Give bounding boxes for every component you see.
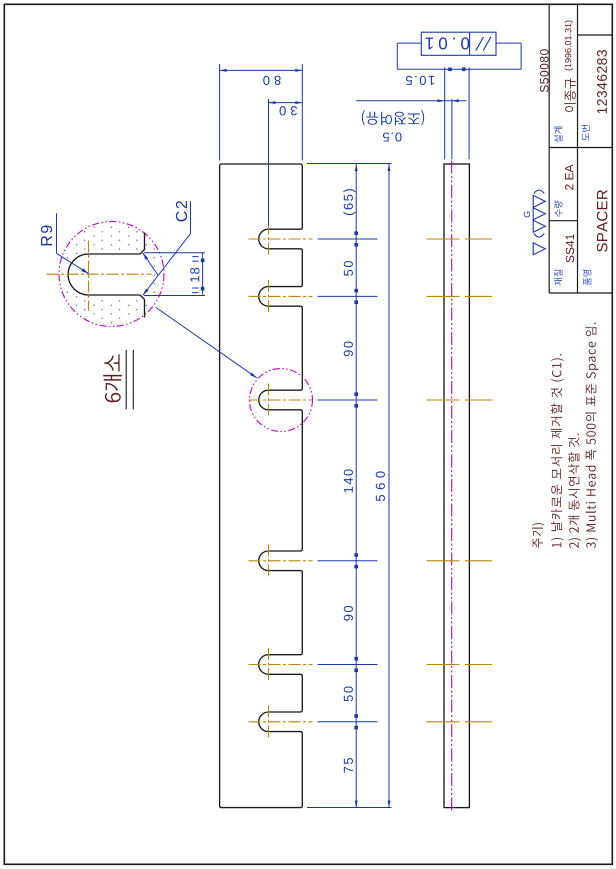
eq mark 1a bbox=[192, 256, 198, 258]
note 1 bbox=[551, 354, 564, 547]
detail indicator circle on part (slot 3) bbox=[250, 369, 313, 432]
ext line offset bbox=[451, 99, 453, 159]
slot 4 centerline horizontal bbox=[249, 560, 313, 562]
label 수량 bbox=[554, 201, 562, 217]
C2 leader shoulder bbox=[190, 201, 192, 233]
side view slot mark 2 (orange) bbox=[427, 295, 493, 297]
value (1996.01.31) bbox=[565, 21, 573, 71]
detail leader bbox=[156, 307, 257, 378]
ext line 18 bottom bbox=[144, 295, 205, 297]
title v2 bbox=[577, 4, 579, 293]
slot 4 extension line bbox=[318, 560, 378, 562]
value 이종규 bbox=[564, 78, 576, 112]
side view slot mark 6 (orange) bbox=[427, 721, 493, 723]
FCF divider bbox=[469, 32, 471, 55]
side view slot mark 3 (orange) bbox=[427, 399, 493, 401]
segment dim ticks at y=296.4 bbox=[354, 289, 358, 293]
part name SPACER bbox=[597, 190, 608, 252]
ext line top bbox=[307, 163, 392, 165]
slot 2 centerline horizontal bbox=[249, 295, 313, 297]
surface G bbox=[524, 211, 530, 217]
title h3 bbox=[549, 220, 577, 222]
dim line 0.5 bbox=[356, 100, 466, 102]
C2 leader 2 bbox=[143, 253, 159, 276]
ext line bottom bbox=[307, 807, 392, 809]
dim text 30 bbox=[280, 106, 297, 115]
slash 2 bbox=[483, 37, 491, 51]
6개소 underline 2 bbox=[132, 350, 134, 410]
C2 leader 1 bbox=[143, 234, 191, 296]
label 도번 bbox=[582, 125, 590, 141]
dim text 80 bbox=[263, 76, 280, 85]
note header 주기) bbox=[532, 523, 544, 548]
slot 6 centerline horizontal bbox=[249, 721, 313, 723]
paren ( bbox=[534, 234, 545, 238]
FCF tolerance 0.01 bbox=[426, 37, 470, 49]
ext line side right bbox=[468, 67, 470, 159]
slot 2 centerline vertical bbox=[268, 280, 270, 313]
surface finish triangles bbox=[533, 243, 545, 255]
segment dim ticks at y=239 bbox=[354, 231, 358, 235]
slot 6 extension line bbox=[318, 721, 378, 723]
dim text 18 bbox=[190, 268, 199, 282]
segment dim text 50 bbox=[344, 686, 353, 701]
side view slot mark 4 (orange) bbox=[427, 560, 493, 562]
dim text (조정여유) bbox=[362, 110, 424, 125]
value SS41 bbox=[566, 234, 574, 262]
ext line 80 left bbox=[219, 64, 221, 161]
label 품명 bbox=[583, 270, 591, 285]
note 2 bbox=[568, 433, 581, 548]
dim text 560 bbox=[376, 471, 385, 501]
part outline (front view, 6 slots) bbox=[220, 164, 303, 808]
eq mark 2a bbox=[192, 287, 198, 289]
dim line 80 bbox=[220, 69, 303, 71]
dim text 0.5 bbox=[383, 132, 402, 141]
segment dim ticks at y=400 bbox=[354, 392, 358, 396]
R9 leader bbox=[57, 253, 89, 273]
detail view circle bbox=[59, 222, 164, 327]
segment dim ticks at y=560.8 bbox=[354, 553, 358, 557]
6개소 underline 1 bbox=[125, 350, 127, 410]
label R9 bbox=[41, 226, 52, 246]
segment dim line bbox=[355, 164, 357, 808]
side view rectangle bbox=[444, 164, 469, 808]
value 12346283 bbox=[597, 50, 607, 113]
shelf top right bbox=[496, 42, 521, 44]
ext line 30 left bbox=[268, 99, 270, 225]
ext line 80/30 right bbox=[301, 64, 303, 161]
doc number S50080 bbox=[540, 49, 548, 92]
side view centerline (magenta) bbox=[451, 161, 453, 812]
slot 5 centerline vertical bbox=[268, 648, 270, 681]
segment dim text 90 bbox=[344, 606, 353, 621]
slot 5 extension line bbox=[318, 664, 378, 666]
segment dim text 50 bbox=[344, 261, 353, 276]
title h2 bbox=[549, 147, 612, 149]
eq mark 1b bbox=[192, 260, 198, 262]
slash 1 bbox=[476, 37, 484, 51]
segment dim text 90 bbox=[344, 341, 353, 356]
slot 1 centerline vertical bbox=[268, 223, 270, 256]
dim 10.5 square ticks bbox=[448, 68, 452, 72]
slot 1 extension line bbox=[318, 238, 378, 240]
detail stipple dots bbox=[93, 227, 95, 229]
dim line 30 bbox=[269, 102, 303, 104]
label 6개소 bbox=[103, 354, 122, 402]
slot 5 centerline horizontal bbox=[249, 664, 313, 666]
shelf right bbox=[520, 43, 522, 69]
R9 leader shoulder bbox=[56, 213, 58, 253]
label 재질 bbox=[554, 270, 562, 286]
eq mark 2b bbox=[192, 292, 198, 294]
ext line side left bbox=[444, 67, 446, 159]
feature control frame box bbox=[421, 32, 496, 55]
slot 2 extension line bbox=[318, 295, 378, 297]
shelf left bbox=[396, 43, 398, 69]
side view slot mark 1 (orange) bbox=[427, 238, 493, 240]
label 설계 bbox=[554, 127, 562, 143]
slot 3 centerline vertical bbox=[268, 384, 270, 417]
title h1 bbox=[578, 34, 613, 36]
detail centerline vertical bbox=[88, 241, 90, 312]
title v1 bbox=[548, 4, 550, 293]
detail centerline horizontal bbox=[47, 273, 152, 275]
note 3 bbox=[585, 322, 598, 548]
dim line 18 bbox=[202, 253, 204, 296]
label C2 bbox=[176, 201, 187, 221]
paren ) bbox=[534, 190, 545, 194]
detail slot outline (enlarged) bbox=[68, 233, 144, 318]
slot 1 centerline horizontal bbox=[249, 238, 313, 240]
side view slot mark 5 (orange) bbox=[427, 664, 493, 666]
slot 3 centerline horizontal bbox=[249, 399, 313, 401]
value 2 EA bbox=[565, 165, 573, 190]
dim line 560 bbox=[388, 164, 390, 808]
segment dim text (65) bbox=[343, 189, 355, 215]
slot 6 centerline vertical bbox=[268, 705, 270, 738]
shelf bottom / dim line 10.5 bbox=[397, 68, 521, 70]
shelf top left bbox=[397, 42, 421, 44]
segment dim text 75 bbox=[344, 758, 353, 773]
ext line 18 top bbox=[144, 252, 205, 254]
segment dim ticks at y=721.8 bbox=[354, 714, 358, 718]
segment dim text 140 bbox=[344, 469, 353, 492]
dim text 10.5 bbox=[406, 76, 434, 85]
title h4 bbox=[549, 292, 612, 294]
segment dim ticks at y=664.5 bbox=[354, 657, 358, 661]
slot 4 centerline vertical bbox=[268, 544, 270, 577]
slot 3 extension line bbox=[318, 399, 378, 401]
